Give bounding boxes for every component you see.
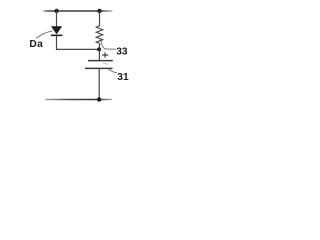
node junction top-left (54, 9, 58, 13)
leader line 33 (101, 41, 116, 50)
resistor 33 zigzag (96, 26, 102, 44)
capacitor 31 bottom plate (85, 67, 113, 69)
node junction bottom (97, 97, 101, 101)
wire resistor top lead (99, 11, 101, 26)
svg-text:31: 31 (117, 72, 129, 83)
diode Da cathode bar (51, 35, 63, 37)
diode Da triangle (51, 26, 62, 34)
node junction mid (97, 47, 101, 51)
wire diode anode lead (56, 11, 58, 27)
wire bottom bus (45, 99, 112, 101)
plus polarity mark (102, 52, 108, 57)
svg-text:33: 33 (116, 46, 128, 57)
wire resistor bottom lead (98, 44, 100, 50)
svg-text:Da: Da (29, 39, 43, 50)
leader line Da (36, 31, 53, 39)
capacitor 31 top plate (88, 60, 113, 62)
wire top bus (44, 10, 113, 12)
leader line 31 (108, 69, 117, 73)
wire capacitor top lead (98, 49, 100, 60)
wire capacitor bottom lead (98, 68, 100, 99)
node junction top-right (97, 9, 101, 13)
wire diode cathode lead down and right to node (57, 36, 100, 49)
faint streak artifact between plates (103, 63, 109, 65)
